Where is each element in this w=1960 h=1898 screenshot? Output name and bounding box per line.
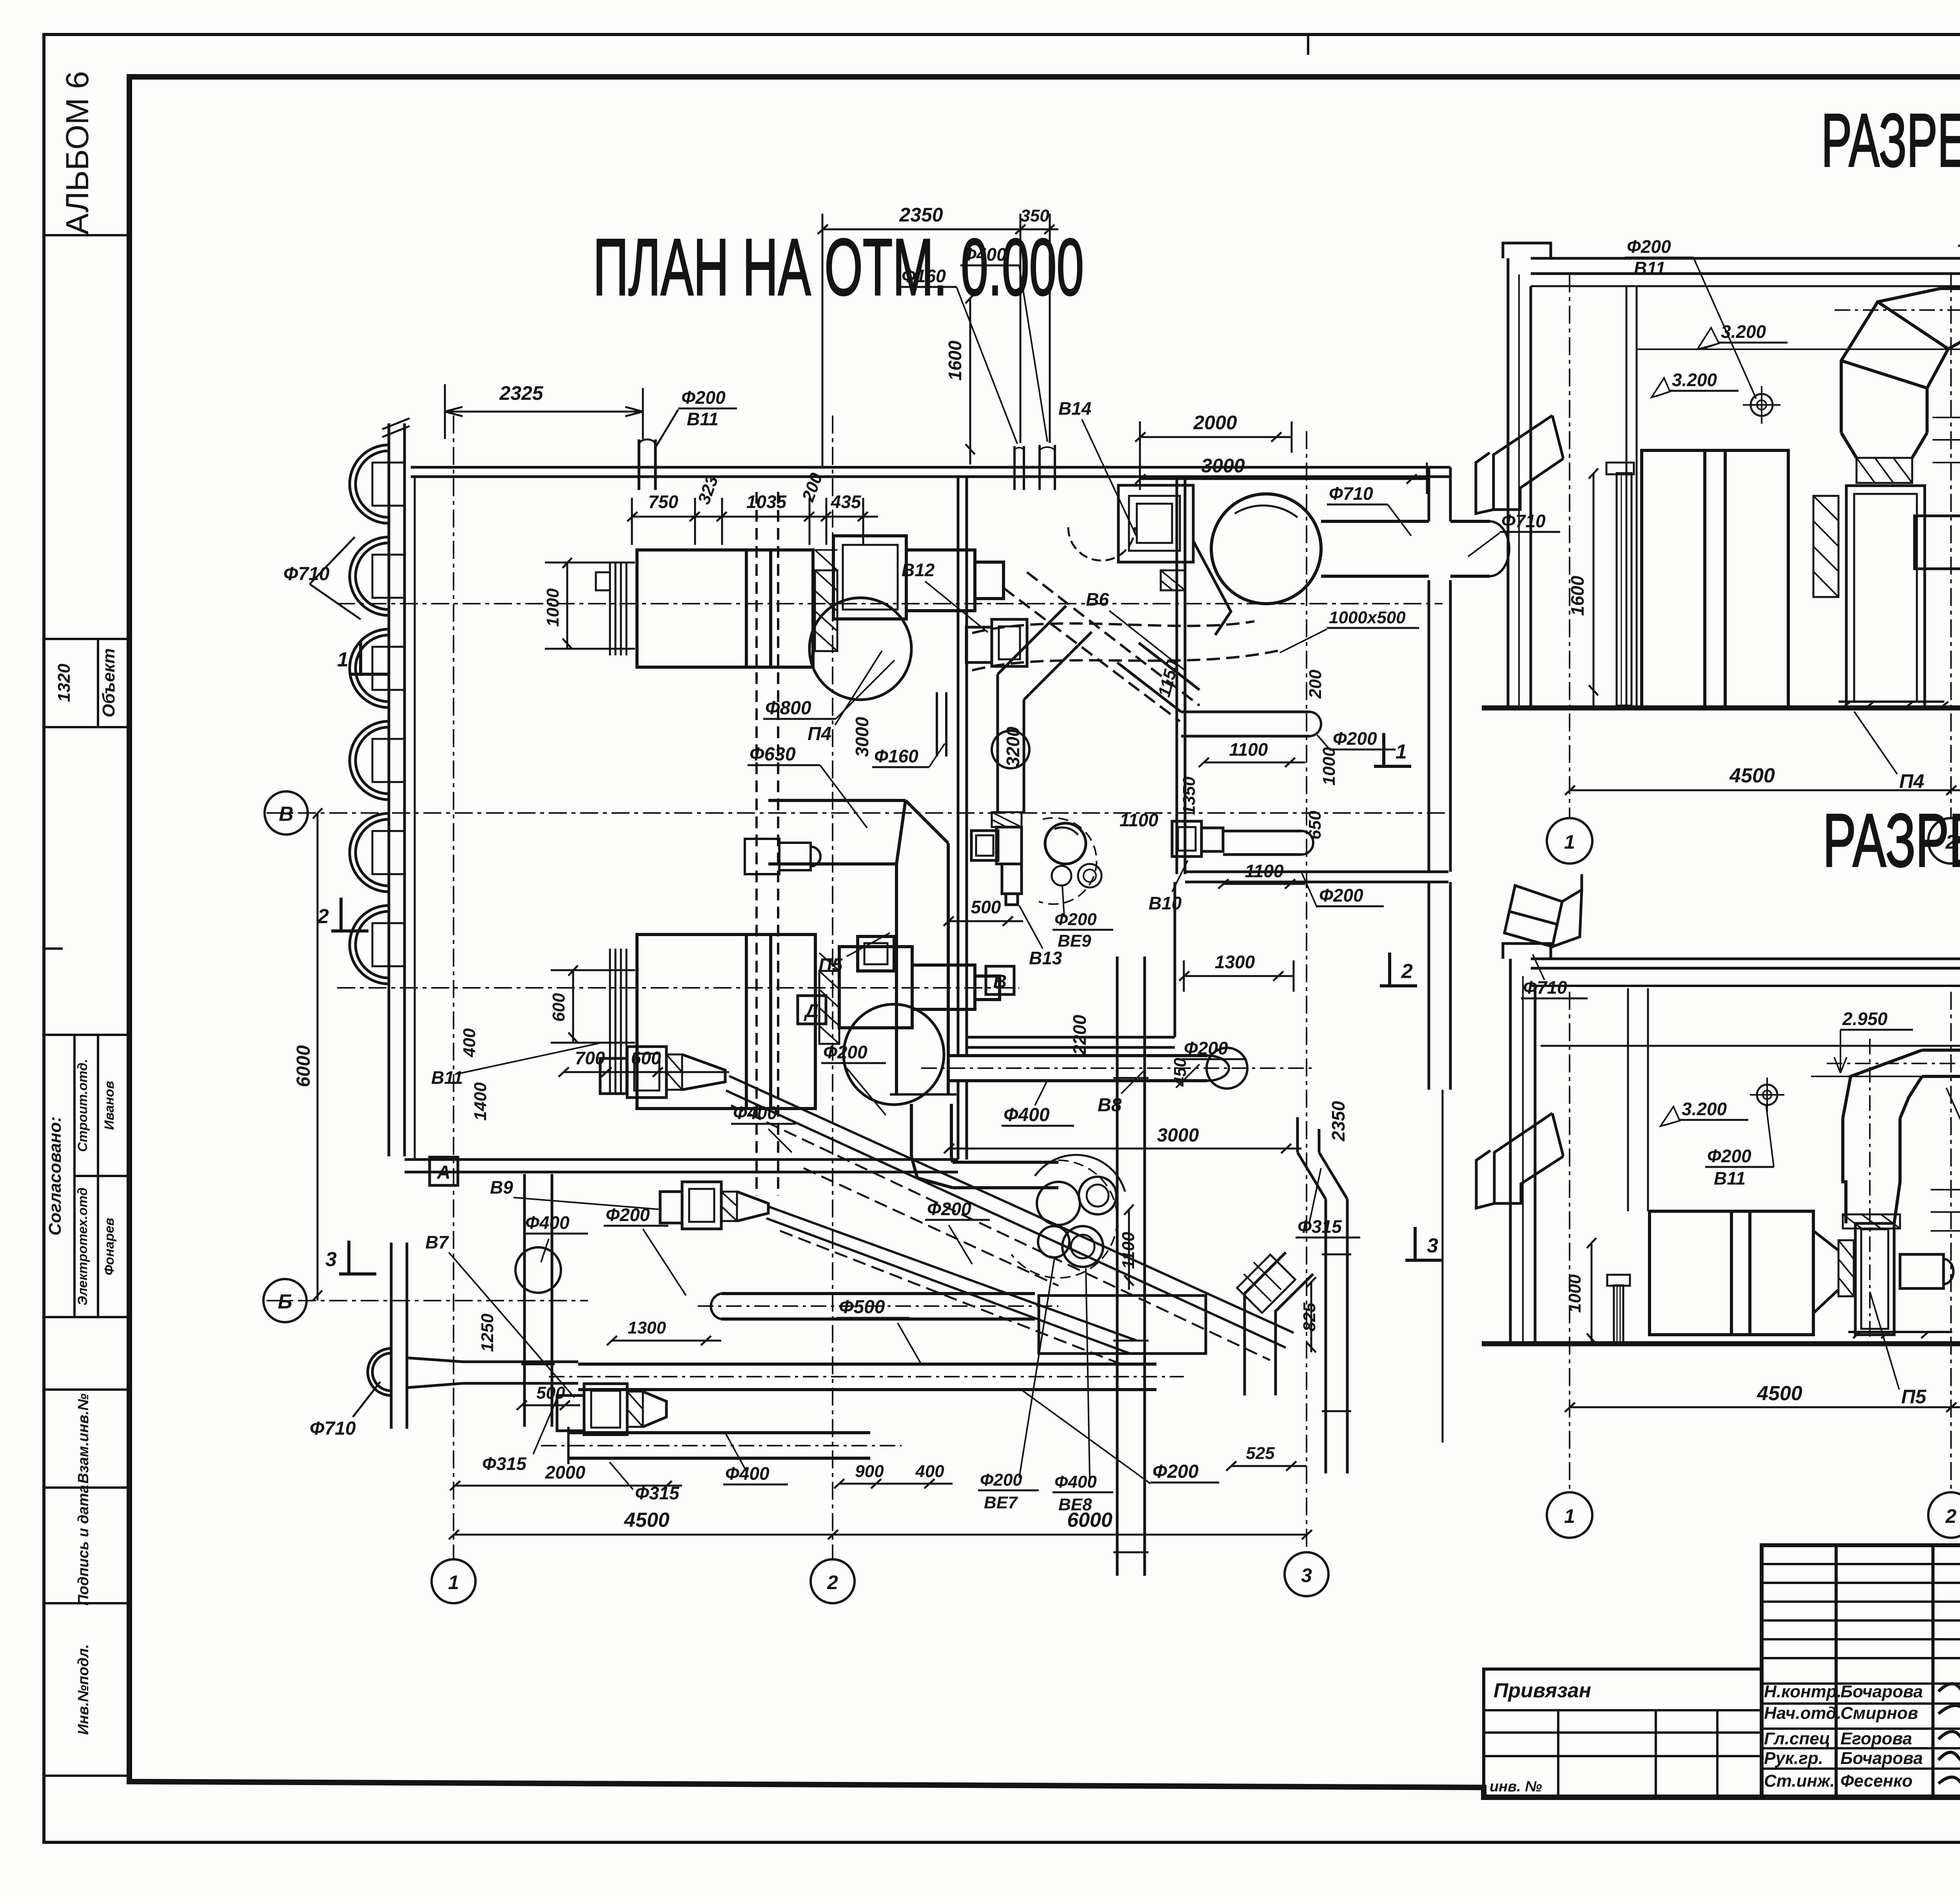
svg-text:инв. №: инв. № [1490,1778,1542,1795]
svg-text:525: 525 [1246,1444,1275,1463]
svg-text:П5: П5 [1901,1386,1927,1408]
svg-text:ПЛАН НА ОТМ. 0.000: ПЛАН НА ОТМ. 0.000 [593,222,1084,312]
P5 unit [1607,1211,1813,1344]
svg-text:2200: 2200 [1069,1014,1090,1055]
left wall lower [390,1243,393,1429]
svg-text:1300: 1300 [628,1318,666,1337]
TITLEBLOCK [1484,1545,1960,1867]
V9 unit [660,1182,768,1229]
floor [1482,1341,1960,1346]
svg-text:Бочарова: Бочарова [1840,1749,1923,1768]
svg-text:ВЕ7: ВЕ7 [984,1493,1018,1512]
svg-text:1: 1 [1396,740,1407,763]
svg-text:3000: 3000 [1157,1125,1199,1146]
dims 2000/3000 top right [1135,421,1427,494]
small dims 300/120/408/875 [1931,1180,1960,1348]
svg-text:1350: 1350 [1180,777,1199,815]
svg-text:Д: Д [804,1001,819,1022]
svg-text:Инв.№подл.: Инв.№подл. [75,1644,92,1735]
svg-text:3.200: 3.200 [1672,370,1717,390]
svg-text:1: 1 [448,1571,459,1593]
svg-text:Ф630: Ф630 [750,744,796,765]
axes [1570,274,1960,818]
svg-text:П4: П4 [1899,770,1924,792]
floor [1482,706,1960,711]
svg-text:В11: В11 [431,1067,463,1088]
svg-text:200: 200 [1306,670,1325,699]
svg-text:6000: 6000 [293,1045,314,1087]
V10 assembly right [1172,821,1313,856]
PLAN-END [1476,29,1960,864]
roof band [1503,944,1960,1046]
svg-text:825: 825 [1300,1303,1319,1332]
left wall [1508,258,1531,708]
svg-text:3: 3 [1427,1234,1438,1257]
svg-text:Ф315: Ф315 [1298,1216,1342,1237]
svg-text:1: 1 [1564,831,1575,853]
left wall upper [388,423,390,1156]
svg-text:Ф200: Ф200 [1319,885,1363,905]
svg-text:Ф710: Ф710 [310,1418,356,1439]
svg-text:Ф710: Ф710 [283,564,330,584]
F400 horizontal duct to V8 [948,1048,1247,1089]
F710 outside elbow piece [1504,874,1582,947]
svg-text:4500: 4500 [1757,1382,1802,1405]
roof band [1503,243,1960,286]
axes [1570,992,1960,1492]
svg-text:В14: В14 [1058,398,1091,419]
outside hood left [1476,416,1563,514]
svg-text:Гл.спец: Гл.спец [1764,1729,1830,1748]
svg-text:1250: 1250 [478,1314,497,1352]
svg-text:Иванов: Иванов [102,1081,117,1130]
svg-text:2325: 2325 [499,382,543,404]
F400 vertical duct with circle elbow [515,1174,561,1427]
diagonal duct bundles [726,1076,1294,1353]
F800 duct: elbow + horizontal [1841,289,1960,483]
svg-text:Б: Б [278,1290,292,1313]
svg-text:Ф400: Ф400 [1004,1105,1050,1125]
svg-text:1000: 1000 [1319,747,1339,786]
1300 dim [1179,960,1294,992]
svg-text:2.950: 2.950 [1842,1009,1888,1029]
3000 dim bottom [944,1144,1301,1153]
svg-text:435: 435 [831,492,862,512]
svg-text:3.200: 3.200 [1721,321,1766,342]
svg-text:1035: 1035 [746,492,787,512]
svg-text:Согласовано:: Согласовано: [45,1116,65,1236]
P4 unit [1606,450,1788,708]
partition x3010 [1176,477,1178,874]
svg-text:1: 1 [1564,1505,1575,1527]
svg-text:Ф200: Ф200 [1707,1146,1751,1166]
svg-text:Ф800: Ф800 [765,698,811,719]
first F200 branch duct with 1100 dim [1117,643,1321,736]
svg-text:Ф200: Ф200 [1054,910,1097,929]
svg-text:3000: 3000 [1201,455,1245,477]
svg-text:350: 350 [1020,206,1049,225]
svg-text:Ф160: Ф160 [902,266,946,286]
svg-text:1100: 1100 [1245,861,1284,881]
svg-text:Ф200: Ф200 [681,387,726,408]
svg-text:2000: 2000 [545,1462,586,1482]
svg-text:500: 500 [971,897,1001,917]
bottom horizontal ducts [568,1294,1156,1464]
dims bottom [450,1481,682,1490]
1000x500 dashed duct [972,572,1278,721]
wall intake bumps F710 [350,445,405,1395]
svg-text:450: 450 [1171,1058,1190,1087]
svg-text:Ф200: Ф200 [927,1199,971,1219]
svg-text:В: В [279,803,294,826]
fan P5 [1813,1223,1953,1338]
svg-text:Ф315: Ф315 [482,1453,527,1474]
risers with labels F160 F400 V14 [1014,445,1055,490]
VE7/VE8 circles cluster [1035,1155,1125,1267]
svg-text:600: 600 [631,1048,661,1068]
svg-text:П4: П4 [808,724,831,744]
F315 vertical right [1298,1117,1351,1473]
svg-text:400: 400 [460,1028,479,1058]
svg-text:ВЕ9: ВЕ9 [1058,931,1091,951]
svg-text:Ф200: Ф200 [980,1470,1022,1490]
partition [1628,988,1648,1211]
500 dim [944,916,1023,926]
top wall [411,466,1450,469]
svg-text:400: 400 [915,1462,944,1481]
svg-text:Ф400: Ф400 [525,1212,570,1233]
flex + fan P4 [1813,486,1960,708]
south wall of B room [1185,871,1448,873]
svg-text:2350: 2350 [1328,1101,1348,1141]
V6 fan circle and duct F710 [1211,494,1509,604]
zigzag duct right [1237,1252,1313,1395]
annex Привязан [1484,1669,1762,1797]
svg-text:В12: В12 [902,560,935,580]
bottom dim 4500/6000 and axis circles [449,1530,1312,1539]
svg-text:3: 3 [325,1248,337,1271]
svg-text:В11: В11 [1714,1168,1746,1189]
dim 2325 [445,384,643,439]
svg-text:Ф200: Ф200 [1627,236,1671,257]
small level dims 300/200/662/1347 [1933,408,1960,717]
svg-text:Н.контр.: Н.контр. [1764,1682,1842,1701]
svg-text:Строит.отд.: Строит.отд. [75,1059,90,1152]
svg-text:1: 1 [337,648,348,671]
svg-text:Ф400: Ф400 [1054,1472,1097,1492]
section mark flags [331,641,1443,1274]
unit P4 [596,536,1004,700]
svg-text:Нач.отд.: Нач.отд. [1764,1704,1841,1723]
svg-text:2: 2 [317,905,329,928]
partition x2455 [957,477,960,1054]
svg-text:900: 900 [855,1462,884,1481]
svg-text:АЛЬБОМ 6: АЛЬБОМ 6 [60,71,95,235]
svg-text:Смирнов: Смирнов [1840,1704,1918,1723]
svg-text:РАЗРЕЗ 2-2: РАЗРЕЗ 2-2 [1823,798,1960,882]
F160 riser mid [937,692,946,757]
svg-text:В13: В13 [1029,948,1062,968]
3.200 + V11 target [1757,1085,1777,1105]
F630 duct from P5: horizontal then elbow down [768,800,1058,1188]
svg-text:2: 2 [1401,960,1413,983]
pit rectangle [1039,1296,1206,1354]
svg-text:Ф710: Ф710 [1523,977,1567,998]
svg-text:700: 700 [575,1048,605,1068]
svg-text:1320: 1320 [54,664,74,702]
svg-text:Фесенко: Фесенко [1840,1771,1913,1791]
svg-text:В: В [993,971,1007,992]
svg-text:1400: 1400 [471,1082,490,1121]
svg-text:Бочарова: Бочарова [1840,1682,1923,1701]
svg-text:1000: 1000 [543,588,563,627]
partition [1626,286,1637,708]
svg-text:6000: 6000 [1067,1509,1112,1531]
svg-text:2: 2 [827,1571,838,1593]
svg-text:В10: В10 [1149,893,1182,913]
svg-text:1300: 1300 [1215,952,1255,972]
unit P5 [610,934,1000,1109]
svg-text:Егорова: Егорова [1840,1729,1912,1748]
svg-text:В7: В7 [425,1232,449,1252]
3.200 level + V11 [1637,348,1960,350]
svg-text:Взам.инв.№: Взам.инв.№ [75,1394,92,1484]
svg-text:3: 3 [1301,1564,1312,1586]
svg-text:Ф710: Ф710 [1329,483,1373,504]
V14 roof unit [1068,485,1231,635]
V11 lower unit [600,1047,725,1098]
svg-text:1600: 1600 [945,340,965,381]
svg-text:500: 500 [536,1383,565,1403]
svg-text:1000: 1000 [1565,1274,1584,1313]
room letter boxes [798,996,826,1024]
svg-text:РАЗРЕЗ 1-1: РАЗРЕЗ 1-1 [1821,98,1960,182]
small boxes on F630 near P5 outlet [745,839,820,874]
lower room wall [405,1158,958,1161]
svg-text:650: 650 [1305,811,1325,840]
svg-text:В9: В9 [490,1177,513,1198]
svg-text:Привязан: Привязан [1494,1679,1591,1702]
svg-text:Объект: Объект [99,648,118,717]
svg-text:П5: П5 [818,955,843,976]
svg-text:Ст.инж.: Ст.инж. [1764,1771,1835,1791]
svg-text:В11: В11 [1634,258,1666,278]
hood outside [1476,1113,1563,1208]
svg-text:2350: 2350 [899,204,943,226]
svg-text:Рук.гр.: Рук.гр. [1764,1749,1823,1768]
svg-text:Ф200: Ф200 [1333,728,1377,749]
svg-text:Ф400: Ф400 [733,1103,777,1123]
svg-text:4500: 4500 [1729,764,1775,787]
svg-text:750: 750 [648,492,679,512]
left wall [1510,959,1535,1344]
svg-text:Ф400: Ф400 [962,244,1007,265]
V7 unit [557,1384,666,1435]
svg-text:2000: 2000 [1193,412,1237,434]
svg-text:2: 2 [1945,1505,1956,1527]
svg-text:Ф160: Ф160 [874,746,918,766]
svg-text:Ф200: Ф200 [1152,1461,1199,1482]
svg-text:1100: 1100 [1229,739,1268,760]
dim 2350/350 top [818,214,1058,466]
axis lines and circles [267,416,1450,1558]
F630 duct [1843,1050,1960,1228]
svg-text:А: А [437,1162,451,1183]
svg-text:Ф400: Ф400 [725,1463,769,1484]
long vertical F315 duct [1113,956,1149,1576]
dashed riser V11 [757,492,778,1196]
svg-text:В6: В6 [1086,589,1109,610]
svg-text:Ф200: Ф200 [606,1205,650,1225]
V12 cluster [966,619,1027,666]
dim chain 750/323/1035/200/435 [627,498,878,545]
svg-text:Фонарев: Фонарев [102,1218,117,1276]
svg-text:Электротех.отд: Электротех.отд [75,1187,90,1305]
svg-text:Ф200: Ф200 [823,1042,867,1062]
right wall [1428,467,1430,521]
bellmouth and duct at axis B [407,1358,578,1388]
svg-text:Ф500: Ф500 [839,1297,885,1317]
svg-text:Подпись и дата: Подпись и дата [75,1485,92,1606]
svg-text:4500: 4500 [624,1509,670,1531]
svg-text:3000: 3000 [852,717,872,757]
svg-text:1000x500: 1000x500 [1329,608,1406,627]
svg-text:В11: В11 [687,409,719,429]
svg-text:3.200: 3.200 [1682,1099,1727,1119]
walls [382,418,1450,1429]
svg-text:Ф200: Ф200 [1184,1038,1228,1058]
svg-text:600: 600 [549,993,568,1022]
V13 cluster center [971,606,1102,905]
SIDEBAR [44,71,129,1776]
